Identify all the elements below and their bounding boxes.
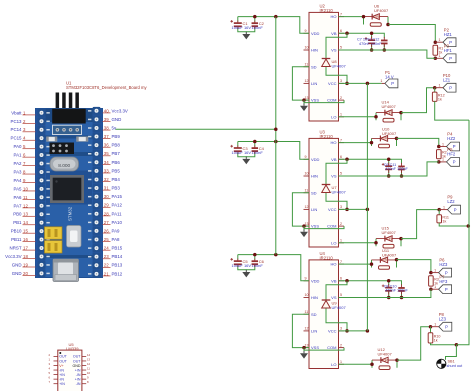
resistor R1 1k gate [433,45,438,55]
wire 5V from MCU board [116,128,276,130]
wire U3 decoupling top [238,142,309,160]
wire VB extension U3 [339,159,402,164]
header pin strip [53,125,82,134]
svg-text:Vcc3.3V: Vcc3.3V [5,254,21,259]
svg-text:HZ2: HZ2 [447,136,456,141]
capacitor C1 100uF [230,20,241,29]
svg-text:HO: HO [331,14,337,19]
svg-text:PB15: PB15 [112,246,123,251]
svg-text:UF4007: UF4007 [374,8,389,13]
wire VSS ground stem [303,100,305,103]
svg-text:P: P [445,270,448,275]
ground VSS U3 [300,230,308,238]
svg-text:PB7: PB7 [112,151,121,156]
wire cap stub [254,255,256,260]
svg-text:1k: 1k [442,220,446,224]
svg-text:PA0: PA0 [14,144,23,149]
svg-text:100nF: 100nF [252,25,264,30]
svg-text:P: P [453,144,456,149]
board edge hole strips [36,109,46,278]
svg-text:HIN: HIN [311,174,318,179]
connector P1 14V input [380,70,398,88]
wire VS to HF node U3 [339,162,439,176]
wire HO U2 [339,16,364,18]
ground VSS U4 [300,351,308,359]
svg-text:PB13: PB13 [112,263,123,268]
svg-text:+IN: +IN [75,368,81,372]
wire HO U3 [339,142,372,144]
wire cap stub [254,17,256,22]
junction [253,140,256,144]
svg-text:100uF 16V: 100uF 16V [232,263,252,268]
capacitor C10 100nF [398,284,405,294]
wire ground stem [245,30,247,33]
resistor R12 1k (LZ1) [432,92,437,101]
wire COM return U2 [304,100,344,103]
net port SB1 shunt out [437,359,446,368]
svg-text:HF3: HF3 [439,279,448,284]
wire LZ node to resistor [438,210,440,215]
wire [371,33,373,38]
svg-text:12: 12 [305,327,309,331]
svg-text:LM339: LM339 [66,346,79,351]
svg-text:PB11: PB11 [11,237,22,242]
svg-text:LIN: LIN [311,329,317,334]
wire resistor bottom to right rail [431,343,457,345]
svg-text:470nF 100nF: 470nF 100nF [385,167,408,171]
connector P9 LZ2 [439,195,460,214]
reset button [67,226,82,248]
svg-text:5: 5 [340,293,342,297]
svg-text:VB: VB [331,157,337,162]
svg-text:PB14: PB14 [112,254,123,259]
junction VCC [345,329,349,333]
wire resistor bottom to right rail [435,101,469,120]
wire HO output to HZ node [397,260,431,273]
wire LO output to LZ node [397,327,431,360]
svg-text:PC15: PC15 [11,136,23,141]
crystal 8.000 [50,157,79,171]
wire SD to VSS U3 [292,193,309,226]
svg-text:Vcc3.3V: Vcc3.3V [112,108,128,113]
wire cap stub [237,142,239,147]
wire 5V rail vertical [275,17,277,255]
svg-text:1: 1 [439,54,441,58]
svg-text:SD: SD [311,312,317,317]
svg-text:10R: 10R [381,258,388,262]
capacitor C9 470nF [382,163,392,174]
svg-text:HIN: HIN [311,295,318,300]
svg-text:5: 5 [340,172,342,176]
svg-text:VDD: VDD [311,157,320,162]
svg-text:PB10: PB10 [11,229,22,234]
svg-text:6: 6 [48,376,50,380]
svg-text:VCC: VCC [328,329,337,334]
wire bootstrap diode cathode to VB [326,281,347,300]
svg-text:UF4007: UF4007 [382,131,397,136]
svg-text:470nF 100nF: 470nF 100nF [359,42,382,46]
connector P7 HF3 [431,274,452,293]
wire LO output to LZ node [401,210,439,239]
capacitor C11 100nF [398,163,405,173]
svg-text:UF4007: UF4007 [378,352,393,357]
diode network U15 UF4007 + resistor (LO path) [376,236,401,248]
svg-text:+IN: +IN [59,373,65,377]
svg-text:PA2: PA2 [14,161,23,166]
wire U2 decoupling bottom [238,28,255,32]
svg-text:3: 3 [340,205,342,209]
svg-text:UF4007: UF4007 [382,230,397,235]
IC U2 IR2110 gate driver [304,3,345,121]
capacitor C3 100uF [230,145,241,154]
svg-text:P: P [445,287,448,292]
svg-text:PB9: PB9 [112,134,121,139]
wire VCC U4 [339,330,368,332]
junction VB [345,32,349,36]
svg-text:GND: GND [12,271,22,276]
svg-text:PC13: PC13 [11,119,23,124]
board pin labels right [103,108,128,276]
svg-text:P: P [449,40,452,45]
svg-text:10: 10 [305,46,309,50]
svg-text:NRST: NRST [10,246,22,251]
svg-text:SD: SD [311,190,317,195]
svg-text:14 V: 14 V [385,74,394,79]
resistor R11 1k (LZ2) [437,215,442,223]
svg-text:9: 9 [305,155,307,159]
svg-text:VDD: VDD [311,31,320,36]
junction 5V rail [274,15,278,19]
svg-text:5v: 5v [112,125,117,130]
svg-text:PB0: PB0 [13,212,22,217]
svg-text:2: 2 [340,222,342,226]
svg-text:VS: VS [331,174,337,179]
small components row [47,137,58,142]
svg-text:10R: 10R [373,15,380,19]
svg-text:P: P [454,207,457,212]
svg-text:IR2110: IR2110 [320,134,334,139]
svg-text:3: 3 [340,327,342,331]
svg-text:PA10: PA10 [112,220,123,225]
svg-text:VDD: VDD [311,278,320,283]
wire U4 decoupling top [238,255,309,281]
svg-text:PA11: PA11 [112,211,123,216]
node LZ phase 2 [437,208,441,212]
wire U3 decoupling bottom [238,153,255,157]
capacitor C4 100nF [252,146,258,154]
wire VSS ground stem [303,226,305,229]
svg-text:P: P [453,160,456,165]
junction VCC [345,208,349,212]
svg-text:PB8: PB8 [112,143,121,148]
wire LO U4 [339,363,373,365]
wire VSS ground stem [303,348,305,351]
junction VB [345,158,349,162]
svg-text:7: 7 [340,138,342,142]
svg-text:1: 1 [340,113,342,117]
IC U4 IR2110 gate driver [304,251,345,369]
svg-text:6: 6 [340,277,342,281]
svg-text:COM: COM [327,98,336,103]
svg-text:-IN: -IN [76,382,81,386]
capacitor C8 470nF [382,284,392,295]
resistor R10 1k (LZ3) [428,333,433,343]
svg-text:SD: SD [311,64,317,69]
junction 14V rail [366,208,370,212]
svg-text:P: P [445,324,448,329]
wire [401,169,403,176]
svg-text:GND: GND [73,364,81,368]
svg-text:12: 12 [305,79,309,83]
svg-text:PC14: PC14 [11,127,23,132]
node LZ phase 1 [433,86,437,90]
svg-text:PB12: PB12 [112,271,123,276]
svg-text:PB5: PB5 [112,168,121,173]
svg-text:1: 1 [340,239,342,243]
wire [388,169,390,176]
svg-text:11: 11 [305,310,309,314]
svg-text:LO: LO [331,362,336,367]
svg-text:-IN: -IN [59,377,64,381]
svg-text:100nF: 100nF [252,263,264,268]
ground decoupling U3 [242,157,250,165]
diode network U14 UF4007 + resistor (LO path) [376,110,401,122]
svg-text:9: 9 [305,29,307,33]
svg-text:11: 11 [305,62,309,66]
boot header block [50,143,75,155]
svg-text:1: 1 [443,205,445,209]
junction [253,253,256,257]
junction 14V rail [366,329,370,333]
svg-text:VCC: VCC [328,207,337,212]
svg-text:VSS: VSS [311,224,319,229]
silkscreen columns [46,112,49,114]
module U1 STM32F103C8T6 development board [36,81,148,282]
diode U9 UF4007 bootstrap [322,300,347,310]
svg-text:LIN: LIN [311,207,317,212]
svg-text:PB6: PB6 [112,160,121,165]
svg-text:5: 5 [48,371,50,375]
svg-text:4: 4 [48,367,50,371]
svg-text:7: 7 [340,12,342,16]
resistor R2 1k gate [437,150,442,159]
wire ground stem [245,155,247,158]
wire VB extension U4 [339,281,402,286]
svg-text:P: P [449,56,452,61]
node HF phase 2 [437,160,441,164]
svg-text:STM32F103C8T6_Development_Boar: STM32F103C8T6_Development_Board my [66,85,147,90]
svg-text:GND: GND [12,262,22,267]
wire shunt connection [446,345,457,360]
node LZ phase 3 [429,325,433,329]
IC U16 LM339 comparator [48,342,90,391]
boot jumpers yellow [45,227,63,239]
connector P10 LZ1 [435,73,456,92]
capacitor C5 100uF [230,258,241,267]
svg-text:2: 2 [340,343,342,347]
wire LZ node to resistor [430,327,432,333]
board texture patches [46,109,93,122]
svg-text:OUT: OUT [59,359,67,363]
svg-text:-IN: -IN [76,373,81,377]
diode network U11 UF4007 + resistor (HO path) [372,257,397,269]
svg-text:1: 1 [439,38,441,42]
svg-text:100nF: 100nF [252,150,264,155]
svg-text:HZ3: HZ3 [439,262,448,267]
wire bootstrap diode anode to VCC [326,67,347,83]
diode network U12 UF4007 + resistor (LO path) [372,357,397,369]
wire [388,281,390,286]
svg-text:P: P [391,81,394,86]
svg-text:UF4007: UF4007 [332,64,347,69]
wire LO U3 [339,242,377,244]
wire HO U4 [339,263,372,265]
connector P6 HZ3 [431,258,452,277]
svg-text:11: 11 [305,188,309,192]
wire bootstrap diode anode to VCC [326,193,347,209]
wire [371,43,373,50]
connector P4 HZ2 [439,132,460,151]
board pin labels left [5,110,35,276]
wire [388,291,390,298]
node HZ phase 3 [429,271,433,275]
wire resistor bottom to right rail [439,223,468,226]
wire right return rail [456,120,469,345]
svg-text:10R: 10R [381,137,388,141]
svg-text:LZ1: LZ1 [443,77,451,82]
wire cap stub [237,17,239,22]
ground VSS U2 [300,104,308,112]
svg-text:HF1: HF1 [444,48,453,53]
svg-text:PA3: PA3 [14,169,23,174]
svg-text:LO: LO [331,240,336,245]
svg-text:HZ1: HZ1 [444,32,453,37]
svg-text:OUT: OUT [73,359,81,363]
junction [387,174,391,178]
wire [383,43,385,50]
junction 14V rail [366,82,370,86]
wire HO output to HZ node [397,138,439,146]
svg-text:8: 8 [87,380,89,384]
svg-text:PA6: PA6 [14,195,23,200]
capacitor C7 470nF [365,37,375,48]
svg-text:LZ3: LZ3 [439,316,447,321]
svg-text:Vbatt: Vbatt [11,110,22,115]
junction [387,158,391,162]
wire LO U2 [339,116,377,118]
node HZ phase 1 [434,40,438,44]
svg-text:PB1: PB1 [13,220,22,225]
ground decoupling U2 [242,32,250,40]
PCB board body [36,109,103,278]
wire [388,159,390,164]
svg-text:1: 1 [48,357,50,361]
connector P8 LZ3 [431,312,452,331]
connector P3 HF1 [435,43,456,62]
svg-text:5: 5 [340,46,342,50]
wire SD to VSS U2 [292,67,309,100]
diode network U6 UF4007 + resistor (HO path) [364,14,389,27]
svg-text:3: 3 [48,362,50,366]
svg-text:UF4007: UF4007 [332,305,347,310]
svg-text:8.000: 8.000 [58,163,70,169]
diode U8 UF4007 bootstrap [322,59,347,69]
svg-text:1k: 1k [438,98,442,102]
wire VCC U3 [339,208,368,210]
junction [400,296,404,300]
svg-text:1: 1 [380,79,382,83]
wire VS to HF node U2 [339,50,436,58]
svg-text:HO: HO [331,262,337,267]
svg-text:HF2: HF2 [447,152,456,157]
svg-text:9: 9 [87,376,89,380]
svg-text:2: 2 [340,96,342,100]
svg-text:1: 1 [434,285,436,289]
wire LZ node to resistor [434,88,436,92]
svg-text:7: 7 [340,260,342,264]
junction VB [345,279,349,283]
svg-text:7: 7 [48,380,50,384]
capacitor C2 100nF [252,21,258,29]
svg-text:PA12: PA12 [112,203,123,208]
junction 5V [274,128,278,132]
wire [401,291,403,298]
svg-text:1: 1 [340,360,342,364]
junction right rail [467,224,471,228]
junction [387,279,391,283]
pad holes right [93,107,101,115]
svg-text:+IN: +IN [75,377,81,381]
svg-text:V+: V+ [59,364,64,368]
pad holes left [38,109,46,117]
junction VSS [302,346,306,350]
svg-text:GND: GND [112,117,122,122]
wire U2 decoupling top [238,17,309,34]
node HF phase 1 [434,57,438,61]
wire VS to HF node U4 [339,289,431,297]
junction [383,48,387,52]
svg-text:3: 3 [340,79,342,83]
svg-text:10R: 10R [386,111,393,115]
junction [400,174,404,178]
svg-text:shunt out: shunt out [447,364,464,368]
capacitor C6 100nF [252,259,258,267]
wire bootstrap diode cathode to VB [326,159,347,184]
wire bootstrap diode anode to VCC [326,309,347,331]
svg-text:PA15: PA15 [112,194,123,199]
connector P2 HZ1 [435,27,456,46]
svg-text:6: 6 [340,155,342,159]
wire VCC U2 [339,82,382,84]
wire U4 decoupling bottom [238,266,255,270]
wire cap stub [254,142,256,147]
svg-text:100uF 16V: 100uF 16V [232,150,252,155]
svg-text:PB3: PB3 [112,186,121,191]
svg-text:PA4: PA4 [14,178,23,183]
svg-text:10: 10 [305,293,309,297]
svg-text:COM: COM [327,224,336,229]
svg-text:12: 12 [305,205,309,209]
svg-text:HIN: HIN [311,48,318,53]
svg-text:PA1: PA1 [14,153,23,158]
svg-text:6: 6 [340,29,342,33]
diode U7 UF4007 bootstrap [322,185,347,195]
svg-text:470nF 100nF: 470nF 100nF [385,289,408,293]
capacitor C12 100nF [381,37,388,47]
usb connector [53,259,79,282]
svg-text:P: P [449,85,452,90]
MCU chip STM32 [50,175,84,203]
